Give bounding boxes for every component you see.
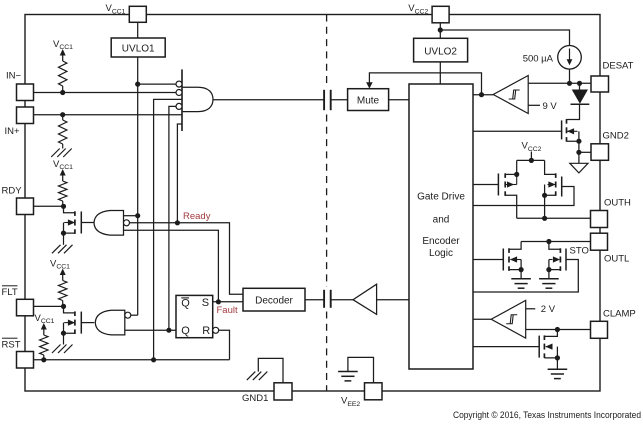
- svg-text:and: and: [433, 214, 450, 225]
- ground symbol GND1: [259, 372, 268, 381]
- pin IN+: [17, 107, 34, 124]
- resistor pull-down on IN+ to ground: [62, 115, 64, 120]
- wire OUTH line to pin: [517, 217, 591, 219]
- node DESAT current source junction: [567, 81, 572, 86]
- svg-text:DESAT: DESAT: [603, 61, 634, 72]
- wire OUTL line to pin: [521, 241, 591, 243]
- wire Ready net from U2 middle input to Decoder: [130, 223, 244, 294]
- pin IN-: [17, 84, 34, 101]
- block Decoder: [243, 288, 305, 311]
- pin OUTH: [591, 211, 608, 228]
- node IN+ pulldown junction: [60, 112, 65, 117]
- svg-text:Q: Q: [181, 325, 190, 337]
- latch U4 SR latch: [176, 295, 213, 337]
- svg-text:FLT: FLT: [2, 287, 18, 298]
- svg-text:Copyright © 2016, Texas Instru: Copyright © 2016, Texas Instruments Inco…: [453, 409, 641, 420]
- wire capacitor C2 to feedback buffer: [331, 299, 353, 301]
- svg-text:Ready: Ready: [183, 211, 211, 222]
- isolation barrier (dashed): [326, 15, 328, 87]
- current source 500uA: [558, 46, 582, 70]
- wire to GND2 pin: [579, 151, 591, 153]
- transistor Q8 CLAMP MOSFET: [473, 346, 539, 348]
- wire UVLO2 to gate drive block: [439, 62, 441, 84]
- wire UVLO1 output vertical rail: [137, 57, 139, 315]
- capacitor C1 isolation barrier top channel: [323, 90, 325, 110]
- ground triangle at GND2: [578, 152, 580, 163]
- wire RST to AND gate input 3: [154, 99, 182, 359]
- node Fault junction: [216, 299, 221, 304]
- svg-text:GND2: GND2: [603, 131, 629, 142]
- wire OUTH NMOS gate wrap to gate drive: [473, 187, 574, 206]
- wire current source to DESAT node: [569, 69, 571, 83]
- wire UVLO2 branch to Mute and DESAT comparator: [369, 73, 481, 95]
- svg-text:IN−: IN−: [6, 71, 22, 82]
- wire IN+ line: [34, 114, 183, 116]
- wire Ready to AND gate input 6: [177, 124, 182, 223]
- svg-text:UVLO1: UVLO1: [122, 44, 155, 55]
- logic gate U3 FLT driver (left-pointing AND, inverted top input): [95, 310, 125, 335]
- ground at Q7 source: [539, 278, 559, 280]
- wire diode cathode to DESAT discharge MOSFET drain: [567, 104, 580, 119]
- comparator U7 CLAMP 2V (points left): [473, 318, 491, 320]
- ground at Q8 source: [548, 368, 568, 370]
- node GND2 junction: [576, 150, 581, 155]
- transistor Q1 RDY pull-down MOSFET: [64, 206, 75, 213]
- svg-text:Encoder: Encoder: [422, 236, 460, 247]
- wire VEE2 pin to ground: [348, 357, 374, 382]
- ground symbol VEE2: [338, 371, 358, 373]
- ground at Q6 source: [511, 278, 531, 280]
- node VCC2 junction: [438, 27, 443, 32]
- svg-text:STO: STO: [570, 246, 589, 257]
- wire capacitor C1 to Mute: [331, 99, 348, 101]
- svg-text:OUTL: OUTL: [604, 253, 629, 264]
- wire FLT line: [34, 305, 64, 307]
- svg-text:Q: Q: [181, 297, 190, 309]
- wire CLAMP sense line to pin: [526, 329, 591, 331]
- block Mute: [348, 89, 389, 111]
- node Ready branch: [175, 220, 180, 225]
- wire Decoder to isolation capacitor C2: [305, 299, 324, 301]
- wire RST line to latch R: [34, 359, 230, 361]
- svg-text:OUTH: OUTH: [604, 198, 631, 209]
- pin VEE2: [365, 383, 383, 400]
- svg-text:500 µA: 500 µA: [523, 53, 554, 64]
- wire IN- line: [34, 92, 177, 94]
- node UVLO1 branch: [135, 82, 140, 87]
- node IN- pullup junction: [60, 90, 65, 95]
- pin RST (active low): [17, 352, 34, 369]
- wire VCC2 pin to UVLO2: [439, 23, 441, 38]
- wire Q7 STO gate wrap to gate drive: [473, 260, 578, 293]
- transistor Q2 FLT pull-down MOSFET: [64, 306, 75, 313]
- svg-text:Fault: Fault: [217, 305, 238, 316]
- block UVLO2: [414, 38, 468, 62]
- wire Mute to gate drive block: [389, 99, 409, 101]
- svg-text:Logic: Logic: [429, 248, 453, 259]
- node OUTL junction: [546, 239, 551, 244]
- svg-text:GND1: GND1: [242, 393, 268, 404]
- svg-text:IN+: IN+: [5, 126, 21, 137]
- block Gate Drive and Encoder Logic: [409, 84, 473, 369]
- wire latch Q to U3 bottom input: [125, 329, 176, 331]
- comparator U6 DESAT 9V (points left): [473, 94, 493, 96]
- arrowhead into Mute: [366, 82, 373, 88]
- svg-text:S: S: [202, 297, 209, 309]
- node RDY pullup junction: [61, 204, 66, 209]
- pin FLT (active low): [17, 299, 34, 316]
- svg-text:Decoder: Decoder: [255, 295, 293, 306]
- node CLAMP junction: [555, 327, 560, 332]
- pin GND1: [274, 383, 292, 400]
- wire gate drive block to buffer U5: [377, 299, 409, 301]
- logic gate U1 input AND (3 inverted inputs): [181, 69, 183, 131]
- buffer U5 feedback transmitter (points left): [353, 284, 377, 314]
- wire RDY line: [34, 205, 64, 207]
- pin VCC2: [432, 6, 449, 23]
- transistor Q4 OUTH high-side PMOS: [473, 184, 498, 186]
- node FLT pullup junction: [61, 304, 66, 309]
- pin VCC1: [129, 6, 146, 22]
- node UVLO1 to U2: [135, 213, 140, 218]
- svg-text:RDY: RDY: [2, 186, 23, 197]
- svg-text:RST: RST: [2, 339, 21, 350]
- svg-text:CLAMP: CLAMP: [603, 308, 636, 319]
- pin RDY: [17, 198, 34, 215]
- wire U2 top input from UVLO1 rail: [124, 215, 138, 217]
- node Q branch: [166, 328, 171, 333]
- wire latch R to RST line: [219, 330, 230, 360]
- transistor Q5 OUTH high-side NMOS: [555, 173, 557, 178]
- svg-text:UVLO2: UVLO2: [424, 47, 457, 58]
- label 9V reference: [528, 104, 540, 106]
- wire AND output to isolation capacitor: [213, 99, 324, 101]
- node RST pullup junction: [41, 357, 46, 362]
- node DESAT diode junction: [577, 81, 582, 86]
- pin DESAT: [591, 76, 609, 92]
- label 2V reference: [526, 308, 536, 310]
- transistor Q7 OUTL pull-down NMOS right (STO): [559, 248, 561, 253]
- transistor Q6 OUTL pull-down NMOS left: [473, 259, 503, 261]
- wire DESAT comparator sense input to DESAT pin: [528, 82, 591, 84]
- ground at FLT MOSFET source: [64, 345, 73, 354]
- wire UVLO1 rail to U3 inverted input: [131, 314, 138, 316]
- diode D1 DESAT blanking diode: [579, 83, 581, 90]
- svg-text:Mute: Mute: [357, 96, 380, 107]
- wire Fault net to U2 bottom input: [124, 230, 219, 301]
- capacitor C2 isolation barrier bottom channel: [323, 290, 325, 308]
- pin CLAMP: [591, 321, 608, 338]
- wire VCC2 to 500uA source: [440, 30, 569, 46]
- svg-text:2 V: 2 V: [541, 304, 556, 315]
- svg-text:R: R: [202, 325, 210, 337]
- bubble on latch R input: [213, 327, 219, 333]
- svg-text:Gate Drive: Gate Drive: [417, 192, 465, 203]
- wire GND1 pin to ground: [258, 358, 283, 382]
- transistor Q3 DESAT discharge MOSFET: [473, 130, 562, 132]
- wire latch S to Decoder: [213, 301, 243, 303]
- block UVLO1: [111, 38, 165, 57]
- ground at RDY MOSFET source: [64, 245, 73, 254]
- wire latch Q to AND gate input 4: [169, 106, 176, 330]
- outer boundary of device: [25, 15, 600, 392]
- wire UVLO1 to AND gate input 1: [138, 83, 176, 85]
- pin OUTL: [591, 233, 608, 250]
- svg-text:9 V: 9 V: [543, 101, 558, 112]
- wire VCC1 pin to UVLO1: [137, 22, 139, 38]
- node RST to AND gate branch: [151, 357, 156, 362]
- logic gate U2 RDY driver (left-pointing AND, inverted middle input): [94, 211, 124, 236]
- pin GND2: [591, 144, 609, 161]
